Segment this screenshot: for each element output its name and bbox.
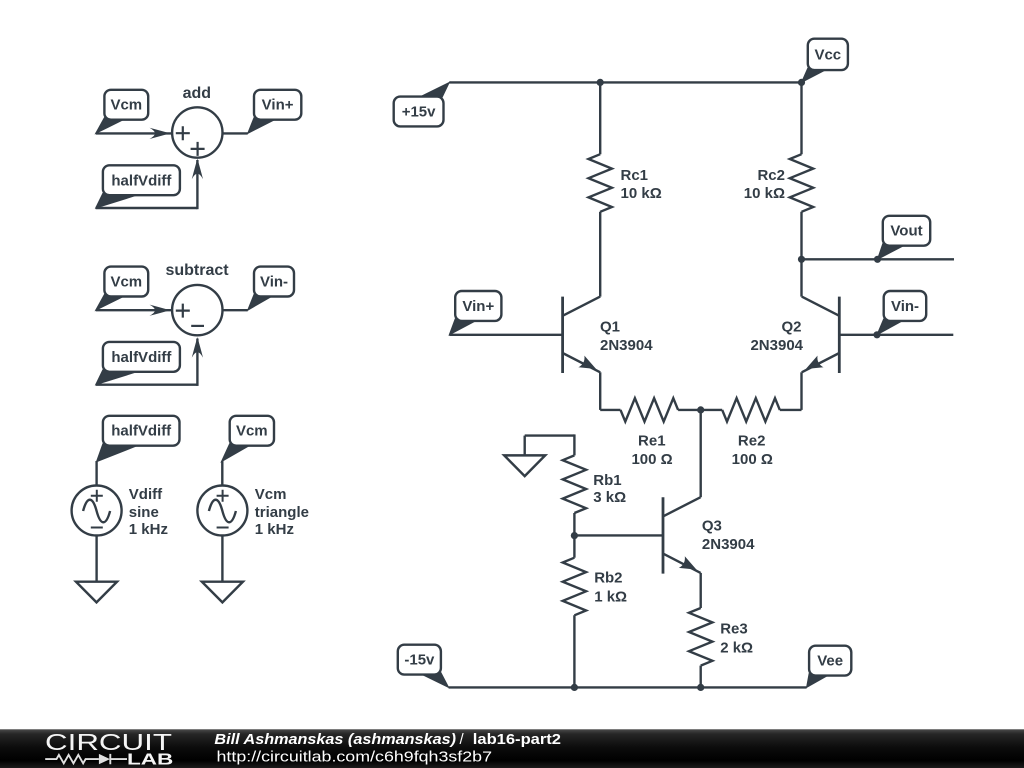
svg-text:-15v: -15v [404,652,435,669]
ground (V2) [202,582,243,603]
svg-text:10 kΩ: 10 kΩ [744,185,785,202]
svg-text:Vcc: Vcc [814,46,841,63]
svg-text:2N3904: 2N3904 [600,337,653,354]
wire Q1 base [449,334,562,336]
svg-text:Vcm: Vcm [110,274,142,291]
summing block U-subtract [165,262,229,336]
svg-text:Vcm: Vcm [236,423,268,440]
wire subtractor output [223,309,248,311]
transistor Q2 2N3904 (mirrored) [750,297,839,373]
flag halfVdiff (source V1) [97,416,180,462]
flag Vee [807,646,852,688]
flag Vcm (subtract input) [96,267,149,311]
resistor Re1 [600,398,701,468]
wire V2 to ground [221,536,223,582]
resistor Rc1 [589,82,662,296]
wire ground to Rb1 top [525,434,575,436]
wire Q1 emitter down [599,372,601,410]
wire bottom rail [449,686,807,688]
svg-text:2 kΩ: 2 kΩ [720,640,753,657]
wire Q2 base [839,334,953,336]
wire top rail [449,81,801,83]
svg-text:Re3: Re3 [720,620,748,637]
logo resistor zigzag [45,755,99,763]
svg-text:+15v: +15v [402,104,436,121]
resistor Re2 [701,398,802,468]
node Re3/rail [697,684,704,691]
up arrow into adder [192,159,203,180]
svg-text:Vcm: Vcm [255,486,287,503]
wire Q3 base [574,534,663,536]
wire flag to V1 [95,461,97,486]
node Rb2/rail [571,684,578,691]
svg-text:3 kΩ: 3 kΩ [593,489,626,506]
svg-text:Vee: Vee [817,653,843,670]
flag Vin+ (Q1 base) [449,291,501,335]
svg-text:100 Ω: 100 Ω [631,451,672,468]
svg-text:Q3: Q3 [702,518,722,535]
resistor Rb2 [563,536,627,688]
node top rail / Rc1 [597,79,604,86]
wire Vout [802,258,955,260]
input arrow into subtractor [150,305,171,316]
svg-text:Rb1: Rb1 [593,472,621,489]
svg-text:http://circuitlab.com/c6h9fqh3: http://circuitlab.com/c6h9fqh3sf2b7 [217,749,493,766]
resistor Rb1 [563,434,626,535]
svg-text:Rc2: Rc2 [757,167,785,184]
node Vin- flag [873,331,880,338]
svg-text:Bill Ashmanskas (ashmanskas): Bill Ashmanskas (ashmanskas) [214,731,456,748]
flag halfVdiff (subtract input) [96,342,180,385]
svg-text:2N3904: 2N3904 [702,536,755,553]
flag Vin- (subtract output) [248,267,294,311]
wire Vcm to subtractor [96,309,172,311]
svg-text:1 kΩ: 1 kΩ [594,589,627,606]
svg-text:add: add [183,85,211,102]
svg-text:triangle: triangle [255,504,309,521]
svg-text:Re2: Re2 [738,432,766,449]
ground (bias) [524,436,526,456]
flag Vin- (Q2 base) [877,291,926,335]
flag Vin+ (add output) [248,90,302,134]
voltage source V2 Vcm [197,486,247,536]
wire Q2 emitter down [800,372,802,410]
wire Vcm to adder [96,132,172,134]
voltage source V1 Vdiff [72,486,122,536]
svg-text:lab16-part2: lab16-part2 [473,731,561,748]
ground (V1) [76,582,117,603]
svg-text:halfVdiff: halfVdiff [111,172,172,189]
svg-text:Vdiff: Vdiff [129,486,163,503]
svg-text:Vin+: Vin+ [462,298,494,315]
wire Q3 emitter down [700,573,702,608]
flag Vcm (source V2) [221,416,274,462]
svg-text:Q1: Q1 [600,319,620,336]
flag Vcm (add input) [96,90,149,134]
svg-text:1 kHz: 1 kHz [255,521,294,538]
svg-text:sine: sine [129,504,159,521]
node Rb1/Rb2/Q3 base [571,532,578,539]
flag +15v [394,82,450,126]
svg-text:LAB: LAB [127,752,173,768]
flag halfVdiff (add input) [96,165,180,208]
flag Vout [878,216,931,259]
wire tail node to Q3 collector [700,410,702,497]
svg-text:Vout: Vout [890,223,922,240]
resistor Rc2 [744,82,813,296]
svg-text:Q2: Q2 [781,319,801,336]
wire halfVdiff to adder [96,207,198,209]
resistor Re3 [689,608,753,687]
svg-text:10 kΩ: 10 kΩ [621,185,662,202]
svg-text:Vcm: Vcm [110,97,142,114]
wire flag to V2 [221,461,223,486]
svg-text:Rb2: Rb2 [594,570,622,587]
logo diode [99,754,110,764]
node Vout flag [874,256,881,263]
transistor Q1 2N3904 [563,297,654,373]
svg-text:Re1: Re1 [638,432,666,449]
input arrow into adder [150,128,171,139]
up arrow into subtractor [192,337,203,358]
svg-text:2N3904: 2N3904 [750,337,803,354]
wire halfVdiff to subtractor [96,384,198,386]
node top rail / Vcc [798,79,805,86]
svg-text:halfVdiff: halfVdiff [111,423,172,440]
svg-text:1 kHz: 1 kHz [129,521,168,538]
node Vout/Rc2 [798,256,805,263]
flag Vcc [802,39,848,83]
wire V1 to ground [95,536,97,582]
flag -15v [398,645,449,688]
node Re1/Re2 [697,406,704,413]
svg-text:Vin-: Vin- [260,274,288,291]
transistor Q3 2N3904 [663,497,755,573]
svg-text:halfVdiff: halfVdiff [111,349,172,366]
svg-text:Vin+: Vin+ [262,97,294,114]
svg-text:subtract: subtract [165,262,229,279]
summing block U-add [172,85,222,158]
svg-text:100 Ω: 100 Ω [732,451,773,468]
svg-text:Vin-: Vin- [891,298,919,315]
wire adder output [223,132,248,134]
svg-text:Rc1: Rc1 [621,167,649,184]
